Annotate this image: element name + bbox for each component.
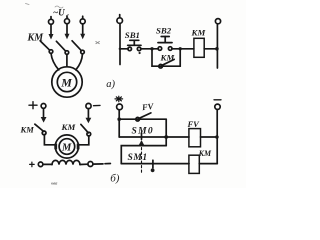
wire to motor right (76, 54, 83, 70)
minus dash (field) (105, 163, 110, 165)
svg-text:М: М (60, 76, 72, 90)
field winding LM (inductor) (52, 160, 80, 164)
svg-text:б): б) (110, 173, 120, 185)
controller contact SM1 (151, 160, 155, 172)
coil KM (194, 38, 204, 57)
contactor KM main contact 2 (56, 34, 69, 55)
controller contact SM0 (139, 133, 145, 146)
junction FV at rail (215, 135, 219, 139)
svg-text:SB1: SB1 (125, 30, 140, 40)
contactor KM main contact 3 (72, 34, 85, 54)
terminal (circuit b, right) (215, 104, 220, 109)
wire from field winding (80, 163, 88, 165)
junction branch right (179, 47, 182, 50)
wire phase C (82, 24, 84, 34)
terminal L3 (80, 16, 85, 24)
wire detour (node A to SM1) (121, 146, 166, 164)
contactor KM contact right (DC) (81, 118, 91, 136)
terminal L1 (49, 17, 54, 25)
svg-text:SB2: SB2 (156, 25, 172, 35)
wire phase A (50, 24, 52, 34)
wire SB1 to SB2 (141, 48, 159, 50)
terminal (circuit b, left) (117, 104, 123, 110)
plus sign (field supply) (30, 162, 35, 167)
svg-text:SM1: SM1 (128, 153, 148, 163)
wire right contact to motor (79, 136, 89, 145)
svg-text:М: М (61, 142, 72, 153)
junction at right rail (215, 47, 219, 51)
wire down from + (43, 108, 45, 117)
svg-text:~U: ~U (53, 8, 65, 18)
mechanical link (dashed) (141, 148, 143, 175)
minus sign (94, 104, 101, 106)
wire SB2 to coil (172, 48, 194, 50)
contactor KM main contact 1 (40, 34, 53, 53)
terminal - (DC circuit) (86, 103, 91, 108)
relay contact FV (119, 113, 166, 121)
wire SM0 line (119, 136, 189, 138)
wire branch up-right (179, 49, 181, 66)
terminal + (DC circuit) (41, 104, 46, 109)
wire left contact to motor (44, 135, 55, 145)
noise mark x (96, 42, 100, 44)
svg-text:КМ: КМ (191, 28, 207, 38)
junction branch left (150, 47, 153, 50)
terminal L2 (65, 16, 70, 24)
wire down from - (87, 109, 89, 118)
left rail (circuit a) (119, 24, 121, 65)
wire to field winding (43, 163, 52, 165)
wire field end (93, 163, 103, 165)
junction FV line (117, 117, 121, 121)
node A junction (164, 135, 168, 139)
plus sign (armature supply) (29, 102, 37, 109)
wire SM1 line (121, 163, 189, 165)
svg-text:а): а) (106, 79, 115, 90)
wire branch bottom (152, 65, 180, 67)
right rail (circuit a) (216, 24, 218, 68)
noise speck top-left (26, 4, 64, 9)
coil KM (circuit b) (189, 155, 199, 173)
terminal (control circuit a, right) (215, 19, 220, 24)
wire to motor middle (66, 54, 68, 66)
left rail (circuit b) (118, 110, 120, 137)
motor M (DC) with brushes (54, 135, 79, 158)
svg-text:КМ: КМ (61, 122, 77, 132)
terminal (control circuit a, left) (117, 15, 123, 24)
svg-text:КМ: КМ (198, 149, 212, 158)
right rail (circuit b) (216, 110, 218, 164)
svg-text:КМ: КМ (27, 33, 45, 44)
contactor KM contact left (DC) (35, 117, 47, 135)
noise dot below SB1 (139, 52, 141, 54)
wire branch down-left (151, 49, 153, 66)
dash above right terminal (214, 99, 221, 101)
auxiliary contact KM (159, 59, 174, 68)
wire rail to SB1 (120, 48, 128, 50)
wire phase B (66, 24, 68, 34)
star mark (supply tap, circuit b left) (115, 96, 123, 102)
wire KM coil to rail corner (199, 163, 217, 165)
svg-text:SM0: SM0 (132, 127, 154, 137)
label ~Uc supply (53, 8, 69, 20)
svg-text:КМ: КМ (160, 52, 176, 62)
wire to motor left (51, 53, 59, 70)
svg-text:КМ: КМ (20, 124, 35, 134)
svg-text:ова: ова (51, 181, 58, 186)
wire coil to right rail (204, 48, 217, 50)
wire FV contact down to node A (165, 119, 167, 145)
svg-text:FV: FV (187, 119, 201, 129)
wire FV coil to rail (201, 136, 218, 138)
terminal field - (88, 162, 93, 167)
pushbutton SB1 (NC stop) (128, 40, 141, 50)
coil FV (189, 129, 201, 147)
terminal field + (38, 162, 43, 167)
junction (119, 48, 122, 51)
pushbutton SB2 (NO start) (158, 37, 172, 51)
motor M (three-phase) (52, 67, 82, 97)
